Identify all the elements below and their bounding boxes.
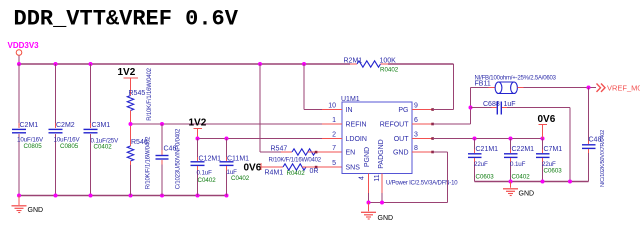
svg-text:C0603: C0603 bbox=[544, 168, 563, 175]
svg-text:EN: EN bbox=[346, 150, 356, 157]
ground symbol under IC bbox=[361, 203, 376, 220]
svg-text:0V6: 0V6 bbox=[244, 162, 262, 173]
resistor R547 bbox=[269, 145, 343, 163]
pin 10 IN bbox=[322, 109, 342, 111]
op-amp U1M1 power IC box bbox=[322, 96, 458, 193]
capacitor C48 bbox=[582, 88, 606, 187]
capacitor C11M1 bbox=[220, 139, 250, 196]
svg-text:22uF: 22uF bbox=[474, 161, 488, 168]
svg-text:GND: GND bbox=[519, 191, 535, 198]
net port VREF_M0 bbox=[597, 83, 640, 92]
svg-text:GND: GND bbox=[28, 207, 44, 214]
svg-text:C3M1: C3M1 bbox=[92, 122, 111, 129]
svg-text:REFOUT: REFOUT bbox=[380, 122, 410, 129]
svg-text:2: 2 bbox=[332, 131, 336, 138]
capacitor C22M1 bbox=[504, 139, 534, 182]
ground symbol right bbox=[503, 182, 518, 196]
svg-text:0R: 0R bbox=[310, 168, 319, 175]
svg-text:VREF_M0: VREF_M0 bbox=[607, 83, 640, 92]
node junction IN tap bbox=[302, 62, 306, 66]
resistor R546 bbox=[127, 124, 151, 196]
resistor R4M1 0R bbox=[261, 163, 342, 177]
node junction C2M2 bbox=[54, 62, 58, 66]
resistor R2M1 bbox=[344, 58, 399, 74]
node junction C11M1 top bbox=[225, 137, 229, 141]
wire LDOIN net y=138.5 bbox=[198, 138, 323, 140]
node junction C688 tap bbox=[469, 106, 473, 110]
wire REFOUT riser bbox=[470, 88, 472, 125]
power port 0V6 (OUT) bbox=[538, 114, 556, 139]
node junction VDD3V3/C2M1 bbox=[17, 62, 21, 66]
svg-text:R0402: R0402 bbox=[287, 170, 306, 177]
svg-text:C12M1: C12M1 bbox=[199, 156, 222, 163]
svg-text:C2M1: C2M1 bbox=[20, 122, 39, 129]
pin 1 REFIN bbox=[322, 123, 342, 125]
pin 6 REFOUT bbox=[412, 123, 433, 125]
ferrite bead FB11 bbox=[475, 75, 557, 93]
svg-text:C2M2: C2M2 bbox=[56, 122, 75, 129]
svg-text:OUT: OUT bbox=[394, 136, 410, 143]
svg-text:R545: R545 bbox=[129, 90, 146, 97]
svg-text:11: 11 bbox=[374, 174, 381, 181]
wire REFOUT row bbox=[433, 123, 471, 125]
svg-text:C7M1: C7M1 bbox=[544, 146, 563, 153]
svg-text:R547: R547 bbox=[271, 145, 288, 152]
svg-text:R2M1: R2M1 bbox=[344, 58, 363, 65]
pin 8 GND bbox=[412, 151, 433, 153]
wire PADGND drop bbox=[381, 193, 383, 203]
node junction C7M1 top / 0V6 bbox=[541, 137, 545, 141]
node junction rail C7M1 bbox=[541, 180, 545, 184]
svg-text:1: 1 bbox=[332, 117, 336, 124]
svg-text:100K: 100K bbox=[380, 58, 397, 65]
capacitor C12M1 bbox=[191, 139, 222, 196]
svg-text:8: 8 bbox=[414, 145, 418, 152]
svg-text:U1M1: U1M1 bbox=[341, 96, 360, 103]
wire EN pullup vertical bbox=[259, 64, 261, 152]
svg-text:SNS: SNS bbox=[346, 165, 361, 172]
wire FB11 input bbox=[471, 87, 489, 89]
svg-text:1uF: 1uF bbox=[504, 101, 516, 108]
node junction GND rail C46 bbox=[160, 194, 164, 198]
node junction rail C688 riser bbox=[568, 180, 572, 184]
svg-text:PGND: PGND bbox=[364, 147, 371, 167]
power port 1V2 (divider top) bbox=[118, 67, 139, 96]
pin 9 PG bbox=[412, 109, 433, 111]
wire C688 GND riser bbox=[569, 108, 571, 182]
svg-text:C21M1: C21M1 bbox=[476, 146, 499, 153]
svg-text:C0402: C0402 bbox=[231, 175, 250, 182]
node junction PADGND bbox=[380, 201, 384, 205]
wire bottom-right GND rail bbox=[475, 181, 589, 183]
capacitor C21M1 bbox=[468, 139, 498, 182]
capacitor C46 bbox=[156, 124, 182, 196]
node junction GND rail C3M1 bbox=[89, 194, 93, 198]
wire GND pin riser bbox=[447, 152, 449, 203]
svg-text:GND: GND bbox=[378, 215, 394, 222]
wire PGND rail bbox=[369, 202, 448, 204]
capacitor C7M1 bbox=[536, 139, 562, 182]
node junction C46 top bbox=[160, 122, 164, 126]
power port VDD3V3 bbox=[8, 41, 40, 64]
pin 11 PADGND bbox=[381, 174, 383, 194]
svg-text:C46: C46 bbox=[164, 146, 177, 153]
node junction PGND bbox=[367, 201, 371, 205]
svg-text:0.1uF: 0.1uF bbox=[510, 161, 526, 168]
svg-text:4: 4 bbox=[359, 176, 366, 180]
wire IN row bbox=[304, 109, 322, 111]
svg-text:N/C/102K/50V/X7R/0402: N/C/102K/50V/X7R/0402 bbox=[600, 130, 606, 187]
pin 3 OUT bbox=[412, 138, 433, 140]
wire REFIN net y=124 bbox=[131, 123, 323, 125]
node junction divider mid bbox=[129, 122, 133, 126]
capacitor C3M1 bbox=[84, 64, 120, 196]
node junction EN pullup bbox=[258, 62, 262, 66]
svg-text:VDD3V3: VDD3V3 bbox=[8, 41, 40, 50]
node junction GND rail C12M1 bbox=[196, 194, 200, 198]
pin 2 LDOIN bbox=[322, 138, 342, 140]
svg-text:9: 9 bbox=[414, 102, 418, 109]
wire top rail right of R2M1 bbox=[388, 63, 454, 65]
svg-text:5: 5 bbox=[332, 160, 336, 167]
svg-text:R/10K/F/1/16W/0402: R/10K/F/1/16W/0402 bbox=[146, 136, 152, 189]
node junction C3M1 bbox=[89, 62, 93, 66]
svg-text:3: 3 bbox=[414, 131, 418, 138]
svg-text:0.1uF: 0.1uF bbox=[197, 169, 213, 176]
capacitor C2M1 bbox=[12, 64, 44, 196]
svg-text:C0402: C0402 bbox=[198, 177, 217, 184]
svg-text:PADGND: PADGND bbox=[378, 139, 385, 168]
node junction C12M1 top bbox=[196, 137, 200, 141]
svg-text:C0603: C0603 bbox=[476, 173, 495, 180]
wire PG riser bbox=[453, 64, 455, 110]
svg-text:1V2: 1V2 bbox=[118, 67, 136, 78]
capacitor C2M2 bbox=[49, 64, 81, 196]
svg-text:C0402: C0402 bbox=[94, 143, 113, 150]
wire FB11 output to VREF bbox=[524, 87, 597, 89]
svg-text:7: 7 bbox=[332, 145, 336, 152]
wire EN row bbox=[260, 151, 281, 153]
svg-text:6: 6 bbox=[414, 117, 418, 124]
svg-text:C688: C688 bbox=[483, 101, 500, 108]
svg-text:DDR_VTT&VREF 0.6V: DDR_VTT&VREF 0.6V bbox=[14, 7, 239, 32]
svg-text:REFIN: REFIN bbox=[346, 122, 367, 129]
node junction GND rail C11M1 bbox=[225, 194, 229, 198]
resistor R545 bbox=[127, 67, 153, 124]
svg-text:C0805: C0805 bbox=[24, 143, 43, 150]
svg-text:PG: PG bbox=[398, 107, 408, 114]
power port 1V2 (LDOIN) bbox=[189, 118, 207, 139]
svg-text:C22M1: C22M1 bbox=[512, 146, 535, 153]
node junction rail C22M1 bbox=[509, 180, 513, 184]
svg-text:FB11: FB11 bbox=[475, 80, 491, 87]
wire OUT rail bbox=[433, 138, 543, 140]
svg-text:LDOIN: LDOIN bbox=[346, 136, 367, 143]
node junction GND rail C2M2 bbox=[54, 194, 58, 198]
wire PG row bbox=[433, 109, 454, 111]
svg-text:R4M1: R4M1 bbox=[265, 169, 284, 176]
node junction C21M1 top bbox=[473, 137, 477, 141]
wire top VDD3V3 rail bbox=[19, 63, 350, 65]
pin-end markers bbox=[431, 108, 434, 153]
svg-text:R0402: R0402 bbox=[380, 66, 399, 73]
svg-text:C0805: C0805 bbox=[60, 143, 79, 150]
svg-text:R/10K/F/1/16W/0402: R/10K/F/1/16W/0402 bbox=[147, 67, 153, 120]
wire GND pin row bbox=[433, 151, 448, 153]
node junction GND rail R546 bbox=[129, 194, 133, 198]
wire PGND drop bbox=[368, 193, 370, 203]
svg-text:C0402: C0402 bbox=[512, 173, 531, 180]
svg-text:IN: IN bbox=[346, 107, 353, 114]
svg-text:0V6: 0V6 bbox=[538, 114, 556, 125]
node junction GND rail C2M1 bbox=[17, 194, 21, 198]
wire C688 to GND riser bbox=[507, 107, 570, 109]
pin 4 PGND bbox=[368, 174, 370, 194]
svg-text:1V2: 1V2 bbox=[189, 118, 207, 129]
ground symbol left bbox=[12, 196, 27, 213]
node junction VREF/C48 bbox=[587, 86, 591, 90]
wire IN tap vertical bbox=[303, 64, 305, 110]
wire bottom-left GND rail bbox=[19, 195, 227, 197]
capacitor C688 bbox=[471, 101, 516, 115]
svg-text:GND: GND bbox=[393, 150, 409, 157]
svg-text:10: 10 bbox=[328, 102, 336, 109]
node junction C22M1 top bbox=[509, 137, 513, 141]
svg-text:R/10K/F/1/16W/0402: R/10K/F/1/16W/0402 bbox=[269, 157, 322, 163]
svg-text:C/1023U/50V/NP0/0402: C/1023U/50V/NP0/0402 bbox=[176, 128, 182, 189]
